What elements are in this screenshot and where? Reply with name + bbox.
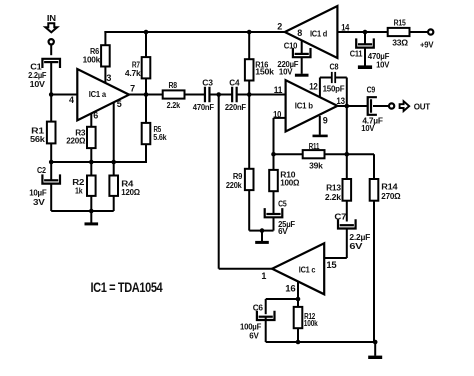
- svg-text:10V: 10V: [376, 59, 390, 69]
- svg-text:100k: 100k: [83, 54, 101, 64]
- svg-text:7: 7: [130, 83, 135, 93]
- svg-text:IC1 a: IC1 a: [89, 89, 107, 99]
- svg-text:470nF: 470nF: [193, 102, 214, 112]
- svg-text:270Ω: 270Ω: [381, 191, 400, 201]
- svg-text:2: 2: [277, 21, 282, 31]
- svg-text:C7: C7: [334, 212, 346, 222]
- svg-text:2.2k: 2.2k: [167, 100, 181, 110]
- svg-text:5: 5: [117, 99, 122, 109]
- svg-text:8: 8: [297, 28, 302, 38]
- svg-text:1k: 1k: [75, 186, 83, 196]
- svg-text:16: 16: [285, 283, 295, 293]
- svg-text:C4: C4: [229, 77, 239, 87]
- svg-text:1: 1: [261, 271, 266, 281]
- svg-text:220nF: 220nF: [225, 102, 246, 112]
- svg-text:C5: C5: [278, 198, 287, 208]
- svg-text:100k: 100k: [304, 318, 318, 328]
- svg-text:C2: C2: [37, 165, 46, 175]
- svg-text:R14: R14: [381, 181, 398, 191]
- svg-text:4.7k: 4.7k: [125, 68, 141, 78]
- svg-text:10V: 10V: [361, 123, 374, 133]
- svg-text:IC1 b: IC1 b: [295, 101, 313, 111]
- svg-text:33Ω: 33Ω: [392, 37, 408, 47]
- svg-text:R8: R8: [169, 80, 178, 90]
- svg-text:+9V: +9V: [420, 40, 434, 50]
- svg-text:R15: R15: [394, 18, 406, 28]
- svg-text:IN: IN: [47, 13, 56, 23]
- svg-text:4: 4: [69, 95, 74, 105]
- svg-text:10: 10: [273, 109, 281, 119]
- svg-text:C11: C11: [350, 48, 363, 58]
- svg-text:6V: 6V: [349, 241, 362, 251]
- svg-text:6V: 6V: [278, 226, 288, 236]
- svg-text:IC1 = TDA1054: IC1 = TDA1054: [91, 279, 163, 295]
- svg-text:10V: 10V: [30, 79, 46, 89]
- svg-text:56k: 56k: [30, 134, 45, 144]
- svg-text:IC1 c: IC1 c: [299, 264, 316, 274]
- svg-text:14: 14: [341, 22, 349, 32]
- svg-text:15: 15: [326, 260, 336, 270]
- svg-text:120Ω: 120Ω: [121, 187, 140, 197]
- svg-text:3: 3: [106, 73, 111, 83]
- svg-text:6: 6: [93, 111, 98, 121]
- svg-text:3V: 3V: [33, 197, 45, 207]
- svg-text:2.2k: 2.2k: [325, 192, 341, 202]
- svg-text:9: 9: [323, 115, 328, 125]
- svg-text:10V: 10V: [279, 67, 293, 77]
- svg-text:11: 11: [274, 85, 283, 95]
- svg-text:5.6k: 5.6k: [153, 132, 166, 142]
- svg-text:C3: C3: [202, 77, 213, 87]
- svg-text:C9: C9: [367, 84, 376, 94]
- svg-text:220k: 220k: [226, 180, 242, 190]
- svg-text:10µF: 10µF: [29, 188, 46, 198]
- svg-text:39k: 39k: [309, 161, 323, 171]
- svg-text:IC1 d: IC1 d: [310, 29, 327, 39]
- svg-text:6V: 6V: [249, 331, 259, 341]
- svg-text:C8: C8: [330, 61, 339, 71]
- svg-text:OUT: OUT: [414, 102, 431, 112]
- svg-text:100Ω: 100Ω: [280, 177, 299, 187]
- svg-text:12: 12: [309, 82, 318, 92]
- svg-text:13: 13: [336, 96, 345, 106]
- svg-text:C6: C6: [253, 302, 264, 312]
- svg-text:150k: 150k: [255, 67, 274, 77]
- svg-text:150pF: 150pF: [323, 84, 345, 94]
- svg-text:220Ω: 220Ω: [66, 136, 85, 146]
- svg-text:C10: C10: [284, 41, 298, 51]
- svg-text:R11: R11: [309, 141, 320, 151]
